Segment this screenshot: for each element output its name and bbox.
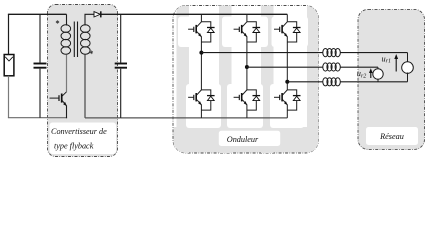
transistor Q4 with diode D4 (leg3 top IGBT cell) <box>274 14 301 42</box>
capacitor C1 input <box>34 14 47 117</box>
onduleur dashed box <box>173 6 319 154</box>
transistor Q2 with diode D2 (leg1 top IGBT cell) <box>188 14 215 42</box>
label box reseau <box>366 127 418 145</box>
wire phase3 line <box>287 81 323 83</box>
label box flyback <box>50 123 117 155</box>
wire secondary top lead <box>85 14 94 25</box>
transistor Q7 with diode D7 (leg3 bottom IGBT cell) <box>274 90 301 118</box>
wire leg1 vertical <box>200 42 202 90</box>
inductor L3 <box>323 78 341 86</box>
wire top rail right (diode to leg3) <box>102 13 288 15</box>
white boxes behind onduleur cells <box>178 17 308 129</box>
node phase3 tap <box>285 80 289 84</box>
wire PV bottom lead <box>8 76 10 118</box>
inductor L1 <box>323 49 341 57</box>
inductor L2 <box>323 63 341 71</box>
label box onduleur <box>219 131 280 146</box>
wire phase2 to grid <box>340 66 378 68</box>
capacitor C2 DC link <box>115 14 127 118</box>
label ur1 <box>382 54 392 64</box>
wire bottom rail left (PV to emitter) <box>8 117 67 119</box>
polarity dot secondary <box>90 51 93 55</box>
source ur1 (grid voltage source phase1) <box>402 53 414 82</box>
svg-text:Convertisseur de: Convertisseur de <box>51 127 107 136</box>
transistor Q3 with diode D3 (leg2 top IGBT cell) <box>234 14 261 42</box>
svg-text:Onduleur: Onduleur <box>227 135 259 144</box>
gray stripes inside onduleur <box>174 6 319 154</box>
diode D1 flyback output <box>94 11 101 17</box>
PV module <box>4 55 14 76</box>
node phase2 tap <box>245 65 249 69</box>
wire phase1 line <box>201 52 323 54</box>
label flyback text <box>51 127 107 151</box>
svg-text:type flyback: type flyback <box>54 142 94 151</box>
transformer T1 <box>61 22 90 58</box>
wire primary top lead <box>66 14 68 25</box>
wire phase2 line <box>247 66 323 68</box>
transistor Q5 with diode D5 (leg1 bottom IGBT cell) <box>188 90 215 118</box>
wire secondary bottom lead <box>85 55 121 118</box>
arrow ur1 <box>394 54 398 72</box>
wire leg2 vertical <box>246 42 248 90</box>
flyback converter dashed box <box>48 5 118 157</box>
wire leg3 vertical <box>286 42 288 90</box>
polarity dot primary <box>56 20 59 24</box>
wire phase3 to grid <box>340 81 407 83</box>
transistor Q6 with diode D6 (leg2 bottom IGBT cell) <box>234 90 261 118</box>
arrow ur2 <box>369 68 373 78</box>
svg-text:Réseau: Réseau <box>379 132 404 141</box>
wire primary bottom lead <box>66 55 68 92</box>
node phase1 tap <box>199 51 203 55</box>
label onduleur text <box>227 135 259 144</box>
reseau dashed box <box>358 9 425 149</box>
source ur2 (grid voltage source phase2) <box>373 67 383 82</box>
wire phase1 to grid <box>340 52 407 54</box>
label reseau text <box>379 132 404 141</box>
transistor Q1 flyback IGBT <box>50 92 67 118</box>
wire bottom rail right <box>121 117 288 119</box>
wire PV top lead <box>8 14 10 54</box>
wire top rail left (PV to primary) <box>8 13 67 15</box>
label ur2 <box>357 69 367 79</box>
